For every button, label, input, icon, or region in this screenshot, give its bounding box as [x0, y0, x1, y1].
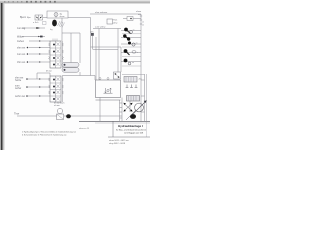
valve block 1 side springs	[49, 43, 64, 60]
wire: vertical drop x=90.5	[91, 18, 122, 48]
svg-text:zhnw zn 15: zhnw zn 15	[79, 128, 90, 130]
valve block 2	[50, 76, 63, 102]
tank symbols row	[126, 85, 138, 88]
title block second line	[95, 122, 150, 124]
svg-text:zh wn: zh wn	[54, 105, 60, 107]
hose rungs	[120, 102, 123, 104]
ports on tank box top	[99, 78, 101, 80]
wire: vertical x=99	[98, 29, 100, 81]
cylinder lozenge 2	[62, 68, 79, 73]
wire: bottom long line y=116 right	[64, 115, 122, 117]
svg-text:zhnw 9611 - 0615 nw: zhnw 9611 - 0615 nw	[109, 140, 129, 142]
valve block 2 side springs	[49, 78, 64, 94]
wire row y=54	[29, 53, 50, 55]
svg-text:hwtze: hwtze	[15, 79, 22, 82]
cylinder lozenge 1	[62, 63, 79, 68]
svg-text:zn: zn	[136, 43, 138, 45]
wire: lozenge drop to return	[79, 72, 81, 76]
wire: top rail y=74.5	[122, 74, 145, 76]
svg-text:4 Schwenkmotor 5 Filtereinhe: 4 Schwenkmotor 5 Filtereinheit 6 Tanklei…	[22, 134, 67, 137]
wire: horizontal y=28.5	[93, 28, 121, 30]
comp row B: quick coupling y30	[121, 28, 141, 34]
wire: rungs to x=145	[141, 79, 145, 81]
svg-text:Tlnw: Tlnw	[14, 113, 19, 116]
wire: vertical x=119.5 below tank	[119, 100, 121, 121]
svg-text:zhny 9612 - 0618: zhny 9612 - 0618	[109, 143, 126, 145]
svg-text:zn: zn	[142, 22, 144, 24]
toolbar icon specks	[4, 1, 22, 2]
black blob on bottom line	[66, 114, 71, 118]
gauge circle above bottom line	[57, 108, 62, 113]
wire: return line y=75.5	[62, 76, 95, 81]
title block top line	[79, 120, 150, 122]
accumulator hatched box 1	[124, 77, 142, 83]
bypass loop rect	[37, 73, 50, 79]
wire: vertical x=118	[117, 29, 119, 73]
svg-text:Tkm: Tkm	[113, 20, 117, 22]
svg-text:zhn: zhn	[139, 79, 142, 81]
svg-text:1 Hydraulikpumpe 2 Steuerven: 1 Hydraulikpumpe 2 Steuerventilblock 3 Z…	[22, 131, 76, 134]
wire: manifold y=33	[62, 32, 80, 34]
wire row y=36	[22, 36, 45, 38]
motor blob (black) below reservoir	[52, 20, 57, 27]
wire: parallel return y=49.5	[93, 49, 118, 51]
svg-text:zum wn: zum wn	[17, 53, 26, 56]
left row labels and lines group 1	[22, 27, 50, 96]
wire: vertical x=121	[120, 47, 122, 72]
wire row y=47	[29, 47, 50, 49]
svg-text:wnhm wn: wnhm wn	[15, 95, 26, 98]
svg-text:Hydraulikanlage I: Hydraulikanlage I	[118, 124, 143, 128]
comp row E y52.5	[121, 49, 141, 55]
comp row A (x127 y16)	[123, 17, 141, 21]
title block left edge	[112, 121, 114, 137]
arrow ticks on rows	[38, 27, 41, 96]
svg-text:Wdtze: Wdtze	[17, 36, 24, 39]
pump circle with arrow	[132, 101, 147, 116]
comp row C: coupling pair y37	[121, 34, 141, 40]
tank box lower line	[96, 99, 121, 101]
svg-text:zhm wnhwm: zhm wnhwm	[95, 12, 107, 14]
svg-text:zum wnhw: zum wnhw	[95, 27, 106, 29]
row separator lines right column	[122, 34, 141, 66]
svg-text:zlm: zlm	[90, 32, 94, 34]
wire: vertical x=90.5 return drop	[90, 47, 92, 76]
svg-text:Bjw: Bjw	[27, 17, 31, 19]
svg-text:zn: zn	[142, 25, 144, 27]
svg-text:wnhw: wnhw	[15, 87, 21, 90]
wire row y=41	[29, 40, 50, 42]
svg-text:zhm wn: zhm wn	[17, 47, 26, 50]
wire: top-right horizontal y=14	[90, 13, 141, 15]
comp row F y61.5	[121, 59, 141, 65]
svg-text:vom Bagger pos 618: vom Bagger pos 618	[124, 132, 144, 135]
svg-text:zlnw: zlnw	[113, 23, 118, 25]
svg-text:Bjenn: Bjenn	[20, 16, 27, 19]
svg-text:zn: zn	[132, 62, 134, 64]
toolbar strip	[0, 0, 150, 3]
tick dashes on right vertical	[140, 16, 142, 24]
valve block 1	[50, 39, 63, 69]
left tiny labels column	[14, 16, 27, 116]
wire row y=87	[28, 86, 50, 88]
pump symbol inside reservoir box	[54, 13, 65, 19]
marks above block 1	[53, 39, 57, 41]
diagonal suction line	[126, 110, 136, 120]
wire: vertical x=90 from box K	[92, 36, 94, 50]
wire: far right vertical x=146.5	[146, 74, 148, 121]
junction dots at label line starts	[26, 47, 28, 97]
wire: vertical x=100 below tank	[99, 98, 101, 122]
reservoir box (big top rect)	[47, 11, 68, 18]
svg-text:zw: zw	[138, 14, 141, 16]
wire row y=79	[28, 78, 50, 80]
wire row y=96	[28, 95, 50, 97]
svg-text:zhm wn: zhm wn	[17, 61, 26, 64]
svg-text:b5 wn: b5 wn	[46, 71, 53, 73]
svg-text:für Bau- und Industriemaschine: für Bau- und Industriemaschinen	[116, 129, 147, 132]
wire: right main vertical x=141	[140, 14, 142, 121]
title block right tick	[146, 121, 148, 137]
svg-text:zhnw: zhnw	[136, 11, 142, 13]
wire: drop x=71	[70, 33, 72, 63]
wire: vertical x=130 below tank	[129, 101, 131, 112]
wire: top feed line left cluster to big rect	[43, 17, 47, 19]
wire: far right vertical x=145	[144, 74, 146, 121]
title block bottom line	[108, 136, 150, 138]
hatch shadow next to blob	[58, 21, 65, 28]
component small box top-mid-right	[107, 19, 118, 25]
valve inside tank box	[104, 88, 113, 93]
tank box	[96, 80, 121, 98]
svg-text:ziehen: ziehen	[17, 40, 25, 43]
filter box	[57, 114, 64, 120]
component on tank top right	[114, 72, 121, 79]
wire: drop x=80	[79, 33, 81, 63]
radiator hatched box 2	[127, 96, 140, 102]
wire: top line from rect to right	[68, 17, 91, 19]
svg-text:a 3ch: a 3ch	[33, 22, 39, 24]
cross valve with black arrowheads	[123, 103, 132, 112]
wire: vertical x=122 below tank	[121, 98, 123, 122]
svg-text:zum wg: zum wg	[17, 27, 26, 30]
wire row y=62	[29, 61, 50, 63]
comp row D y44	[121, 42, 141, 47]
pilot valve cluster top-left	[33, 15, 46, 25]
svg-text:z: z	[137, 52, 138, 54]
wire: vertical x=96	[95, 37, 97, 80]
wire: main pressure line x=62	[61, 18, 63, 41]
svg-text:zhnw: zhnw	[60, 16, 65, 18]
left dark spine bar	[0, 3, 1, 150]
wire row y=28	[22, 27, 45, 29]
page background	[0, 0, 150, 150]
wire: bottom long line y=116 left	[17, 115, 57, 117]
small box K x=90	[91, 33, 94, 36]
black filter blob bottom-right	[130, 114, 136, 119]
svg-text:zn: zn	[133, 30, 135, 32]
